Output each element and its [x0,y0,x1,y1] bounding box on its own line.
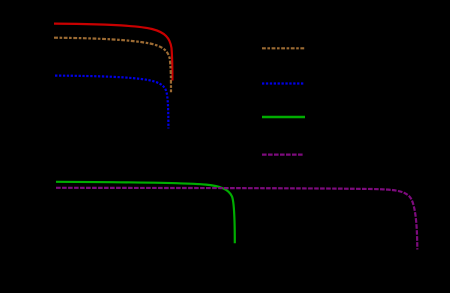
legend sample blue dashed [262,82,305,84]
curve red (solid, top) [54,24,172,81]
curve blue (short-dash, third) [55,76,168,129]
legend sample green solid [262,116,305,118]
legend sample tan dashed [262,47,305,49]
legend sample magenta dashed [262,154,304,156]
curve green (solid, bottom long) [56,182,235,244]
curve tan (dashed, second) [54,38,171,93]
curve magenta (dashed, bottom longest) [56,188,417,250]
